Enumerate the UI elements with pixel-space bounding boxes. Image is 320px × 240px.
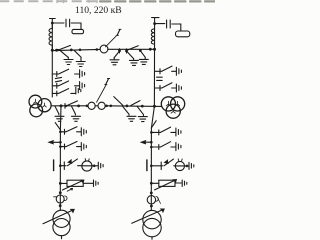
svg-text:110, 220 кВ: 110, 220 кВ <box>75 5 122 16</box>
